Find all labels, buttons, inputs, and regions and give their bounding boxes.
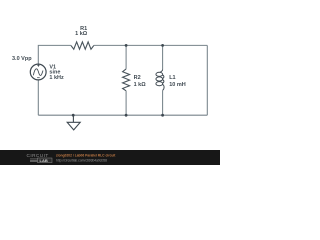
ground	[67, 115, 80, 130]
svg-text:L1: L1	[169, 75, 175, 81]
svg-text:R2: R2	[134, 75, 141, 81]
wire: top rail right segment	[94, 44, 207, 46]
junction dot top L1	[161, 44, 164, 47]
voltage source V1	[30, 64, 46, 80]
svg-text:10 mH: 10 mH	[169, 82, 186, 88]
junction dot ground	[72, 114, 75, 117]
junction dot bottom R2	[125, 114, 128, 117]
wire: bottom rail	[38, 114, 207, 116]
wire: left vertical below source	[37, 80, 39, 115]
svg-text:3.0 Vpp: 3.0 Vpp	[12, 56, 32, 62]
watermark bar	[0, 150, 220, 165]
resistor R2	[123, 69, 130, 91]
junction dot bottom L1	[161, 114, 164, 117]
wire: right vertical	[206, 45, 208, 115]
svg-text:LAB: LAB	[40, 158, 48, 163]
wire: R2 branch top	[125, 45, 127, 69]
svg-text:1 kHz: 1 kHz	[49, 75, 64, 81]
resistor R1	[71, 42, 94, 49]
junction dot top R2	[125, 44, 128, 47]
svg-text:http://circuitlab.com/c693b4a9: http://circuitlab.com/c693b4a9cb58	[56, 158, 107, 162]
svg-text:zlong0202 / Lab06 Parallel RLC: zlong0202 / Lab06 Parallel RLC circuit	[56, 153, 116, 157]
svg-text:1 kΩ: 1 kΩ	[75, 31, 88, 37]
wire: L1 branch top	[162, 45, 164, 69]
svg-text:1 kΩ: 1 kΩ	[134, 82, 147, 88]
wire: L1 branch bottom	[162, 90, 164, 115]
CircuitLab logo	[27, 153, 53, 163]
inductor L1	[156, 69, 164, 90]
wire: top rail left segment	[38, 45, 71, 64]
wire: R2 branch bottom	[125, 91, 127, 115]
